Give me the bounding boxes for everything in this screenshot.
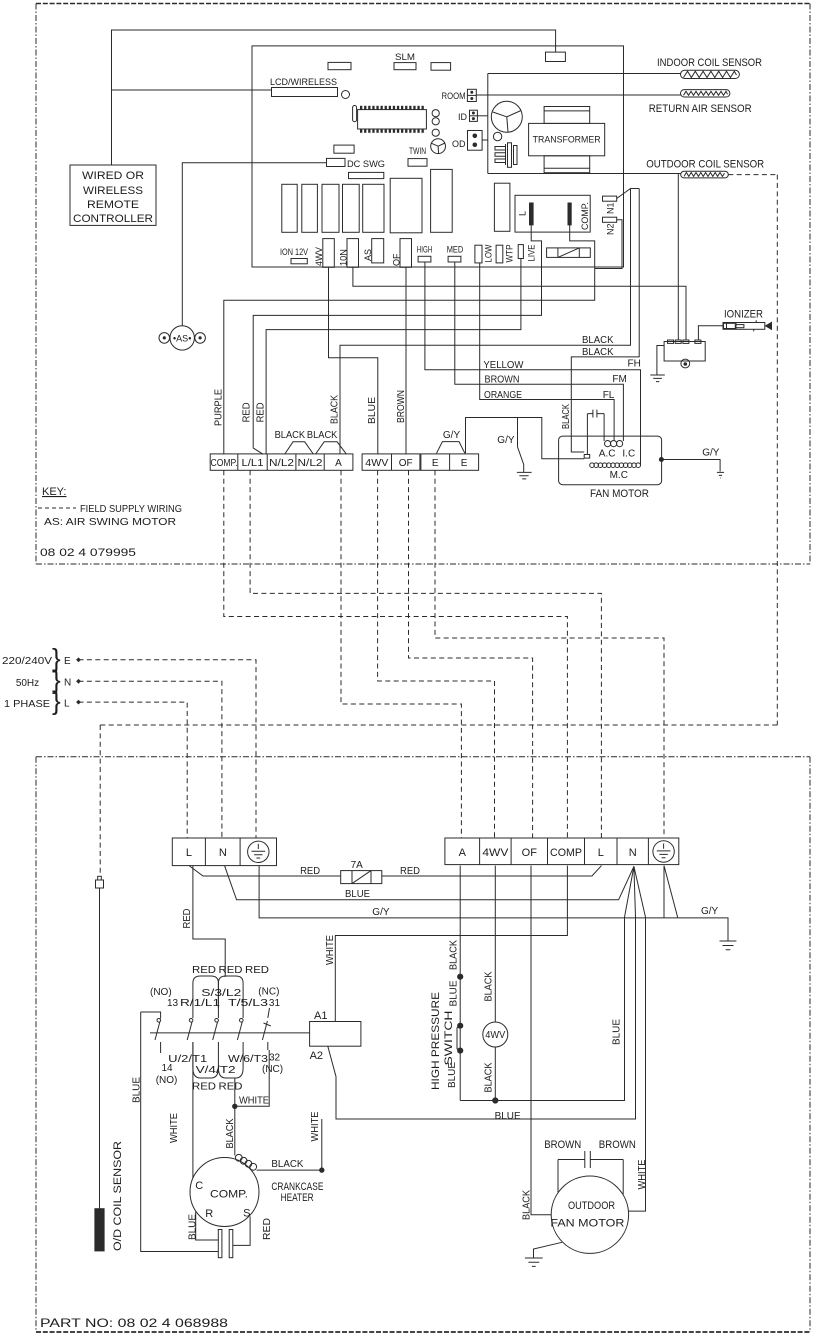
svg-text:L: L (598, 847, 604, 859)
relay K2 (302, 184, 318, 232)
svg-text:G/Y: G/Y (443, 430, 461, 441)
svg-text:YELLOW: YELLOW (483, 360, 524, 371)
svg-text:G/Y: G/Y (497, 435, 515, 446)
LIVE connector (518, 245, 523, 259)
indoor terminal strip COMP..A (210, 454, 353, 470)
outdoor coil sensor symbol (681, 171, 729, 178)
power supply N dashed line (79, 681, 222, 838)
svg-text:RED: RED (255, 402, 266, 422)
power supply L dashed line (79, 702, 188, 838)
svg-text:COMP.: COMP. (210, 1189, 248, 1201)
wire COMP terminal to contactor A1 (WHITE) (335, 866, 567, 1022)
wire right earth to bus (664, 866, 678, 918)
svg-text:REMOTE: REMOTE (87, 199, 139, 211)
wire N2 to COMP node (595, 220, 622, 269)
PCB inner sub-board top edge / indoor coil sensor lead (488, 73, 681, 75)
svg-text:ION 12V: ION 12V (280, 247, 308, 257)
field supply dashed 4WV to outdoor 4WV (378, 470, 495, 838)
wire relay COMP bar to COMP terminal (PURPLE) (224, 225, 595, 454)
wire remote controller to PCB top pad (112, 30, 556, 165)
return air sensor symbol (681, 90, 730, 97)
svg-text:RED: RED (182, 909, 193, 929)
svg-text:4WV: 4WV (365, 458, 388, 469)
relay K4 (343, 184, 360, 232)
wire 4WV coil to blue node (BLACK) (494, 1047, 496, 1101)
svg-text:WIRED OR: WIRED OR (82, 170, 144, 182)
wire 4WV connector to 4WV terminal (BLUE) (329, 267, 378, 454)
svg-text:A1: A1 (314, 1010, 327, 1022)
heatsink component (495, 144, 506, 165)
svg-text:E: E (432, 458, 439, 469)
svg-text:A.C: A.C (599, 449, 616, 460)
svg-text:WHITE: WHITE (637, 1159, 648, 1189)
wire N to outdoor fan motor (WHITE) (629, 866, 646, 1211)
svg-text:WHITE: WHITE (169, 1113, 180, 1143)
text labels: top section (73, 52, 764, 344)
svg-text:OF: OF (399, 458, 413, 469)
field supply dashed A to outdoor A (341, 470, 461, 838)
wire OD to sub-board (482, 139, 488, 141)
relay K1 (282, 184, 297, 232)
svg-text:COMP.: COMP. (211, 458, 238, 469)
wire crankcase heater to A2 riser (BLACK) (257, 1119, 322, 1170)
outdoor left earth symbol (248, 841, 269, 862)
svg-text:IONIZER: IONIZER (724, 309, 763, 321)
svg-text:N/L2: N/L2 (298, 458, 324, 469)
wire OF connector to OF terminal (BROWN) (405, 267, 407, 454)
svg-text:14: 14 (162, 1063, 174, 1074)
svg-text:FAN MOTOR: FAN MOTOR (590, 488, 649, 500)
svg-text:HIGH: HIGH (417, 245, 433, 255)
svg-text:BLACK: BLACK (483, 971, 494, 1001)
svg-text:ROOM: ROOM (442, 91, 466, 101)
svg-text:(NO): (NO) (150, 987, 172, 998)
svg-text:50Hz: 50Hz (16, 678, 39, 689)
svg-text:E: E (461, 458, 468, 469)
wire A terminal to high pressure switch (BLACK/BLUE) (459, 866, 461, 1101)
svg-text:BLUE: BLUE (612, 1019, 623, 1045)
svg-text:V/4/T2: V/4/T2 (196, 1065, 237, 1076)
svg-text:OF: OF (391, 253, 401, 266)
svg-text:L: L (518, 211, 528, 216)
small circle below buzzer (493, 132, 501, 140)
indoor terminal strip 4WV OF (362, 454, 420, 470)
wire L to contactor feed (RED) (193, 866, 225, 977)
crankcase heater coil (235, 1154, 242, 1161)
LCD/WIRELESS connector (272, 88, 338, 97)
svg-text:BROWN: BROWN (599, 1139, 636, 1151)
svg-text:FIELD SUPPLY WIRING: FIELD SUPPLY WIRING (80, 504, 182, 515)
contactor coil box A1 A2 (310, 1022, 361, 1047)
svg-text:4WV: 4WV (482, 847, 509, 859)
svg-text:CONTROLLER: CONTROLLER (73, 213, 153, 225)
ID connector (470, 110, 478, 121)
svg-text:WHITE: WHITE (310, 1111, 321, 1141)
pad above DC SWG (334, 145, 354, 153)
trimmer sphere below LEDs (431, 139, 446, 154)
svg-text:RETURN AIR SENSOR: RETURN AIR SENSOR (649, 103, 752, 115)
svg-text:C: C (195, 1180, 203, 1192)
wire aux 14 to compressor run cap (BLUE) (141, 1012, 219, 1252)
svg-text:L: L (186, 847, 192, 859)
svg-text:N: N (219, 847, 227, 859)
wired or wireless remote controller box (70, 165, 156, 225)
svg-text:BLUE: BLUE (345, 889, 370, 900)
LED circles beside IC (432, 110, 439, 117)
svg-text:BLACK: BLACK (582, 335, 614, 346)
svg-text:HIGH PRESSURE: HIGH PRESSURE (430, 992, 442, 1090)
svg-text:OD: OD (452, 139, 466, 149)
svg-text:FM: FM (612, 374, 626, 385)
svg-text:COMP.: COMP. (580, 202, 590, 230)
svg-text:SLM: SLM (395, 52, 415, 62)
svg-text:O/D COIL SENSOR: O/D COIL SENSOR (112, 1141, 124, 1251)
wire E2 to fan motor frame (G/Y) (466, 418, 585, 459)
svg-text:08 02 4 079995: 08 02 4 079995 (40, 547, 136, 559)
relay COMP contact bars (529, 203, 572, 226)
svg-text:}: } (52, 686, 61, 716)
svg-text:BLACK: BLACK (329, 395, 340, 424)
power supply connection diamonds (76, 657, 81, 662)
fan motor run capacitor (587, 410, 604, 418)
svg-text:WHITE: WHITE (239, 1096, 269, 1107)
PCB top pad connector (546, 52, 566, 61)
wire relay L bar to L/L1 terminal (RED) (253, 225, 541, 454)
outdoor fan capacitor (BROWN) (558, 1151, 623, 1194)
high pressure switch contact (457, 1026, 460, 1051)
wire compressor R to cap (196, 1212, 219, 1241)
wire 4WV terminal to 4WV coil (BLACK) (494, 866, 496, 1022)
HIGH pad (418, 256, 431, 262)
svg-text:BLACK: BLACK (483, 1062, 494, 1092)
svg-text:BLACK: BLACK (271, 1159, 303, 1170)
wire 10N connector to ionizer board (353, 267, 686, 340)
A.C terminal pad (584, 455, 590, 459)
svg-text:TWIN: TWIN (409, 146, 426, 156)
wire LIVE to L/L1 terminal (RED) (266, 259, 521, 455)
jumper bridge N/L2 to N/L2 (285, 442, 313, 454)
wire fuse to outdoor right L (RED) (382, 866, 602, 876)
svg-text:N2: N2 (606, 223, 616, 235)
contactor bottom jumper loops (193, 1068, 219, 1078)
svg-text:FAN MOTOR: FAN MOTOR (550, 1218, 624, 1230)
wire HP switch bottom bus to N (BLUE) (460, 866, 634, 1100)
svg-text:HEATER: HEATER (281, 1192, 314, 1204)
wire outdoor N to right N (BLUE) (225, 866, 634, 900)
WTP connector (496, 245, 503, 263)
svg-text:RED: RED (242, 402, 253, 422)
wire N1 to A terminal (BLACK) (340, 189, 631, 455)
contactor pole S/3/L2 (217, 1008, 219, 1068)
indoor fan motor box (559, 436, 662, 485)
svg-text:(NC): (NC) (262, 1064, 283, 1075)
svg-text:RED: RED (400, 866, 420, 877)
compressor run capacitor plates (218, 1230, 222, 1258)
svg-text:RED: RED (219, 965, 243, 976)
svg-text:N: N (629, 847, 637, 859)
svg-text:RED: RED (300, 866, 320, 877)
pad SLM (394, 63, 416, 70)
wire 32 NC to junction (WHITE) (235, 1050, 269, 1106)
connector 4WV (323, 239, 335, 268)
svg-text:1 PHASE: 1 PHASE (4, 699, 50, 710)
svg-text:AS: AS (363, 249, 373, 261)
connector OF (400, 239, 412, 268)
svg-text:RED: RED (192, 1082, 216, 1093)
wire capacitor left to A.C pad (586, 414, 588, 455)
svg-text:A2: A2 (310, 1050, 323, 1062)
wire N to A2 bottom bus (328, 866, 636, 1119)
wire compressor S to cap (RED) (233, 1217, 250, 1246)
field supply dashed L/L1 to outdoor L (250, 470, 601, 838)
svg-text:L: L (64, 699, 70, 710)
relay K5 (363, 184, 384, 232)
IC crystal (353, 106, 357, 122)
svg-text:M.C: M.C (610, 470, 628, 481)
svg-text:N: N (64, 678, 71, 689)
indoor unit dashed border (36, 3, 810, 5)
buzzer circle (491, 101, 522, 132)
fan motor frame wire with junction to right ground (662, 460, 725, 479)
wire outdoor L to fuse (RED) (189, 866, 341, 876)
svg-text:SWITCH: SWITCH (443, 1010, 455, 1065)
svg-text:ID: ID (458, 112, 468, 122)
svg-text:PART NO: 08 02 4 068988: PART NO: 08 02 4 068988 (40, 1316, 228, 1330)
svg-text:BLUE: BLUE (495, 1111, 521, 1122)
svg-text:BLUE: BLUE (367, 397, 378, 424)
field supply dashed E to outdoor earth (435, 470, 664, 838)
svg-text:(NC): (NC) (258, 987, 279, 998)
svg-text:BLACK: BLACK (522, 1190, 533, 1220)
field supply dashed COMP to outdoor COMP (224, 470, 568, 838)
wire ionizer device to pad4 (698, 326, 723, 340)
svg-text:WHITE: WHITE (325, 935, 336, 965)
4WV solenoid coil (483, 1022, 508, 1047)
IC pins (360, 106, 424, 133)
svg-text:(NO): (NO) (156, 1075, 178, 1086)
indoor PCB board outline (252, 46, 624, 267)
PCB inner sub-board left edge (487, 74, 489, 174)
fuse F1 on PCB (547, 248, 591, 258)
contactor top jumper loops (193, 976, 219, 1008)
svg-text:A: A (459, 847, 467, 859)
wire MED to fan motor FM (BROWN) (455, 262, 624, 441)
indoor coil sensor symbol (681, 70, 740, 78)
svg-text:RED: RED (262, 1218, 273, 1240)
svg-text:G/Y: G/Y (701, 906, 719, 917)
svg-text:7A: 7A (351, 860, 364, 871)
OD connector (468, 131, 483, 151)
svg-text:BLUE: BLUE (132, 1077, 143, 1103)
svg-text:R: R (205, 1208, 213, 1220)
svg-text:LOW: LOW (484, 244, 494, 262)
pad P3 top row (431, 63, 451, 71)
svg-text:LIVE: LIVE (527, 245, 537, 262)
IC U1 body (358, 110, 427, 129)
jumper bridge N/L2 to A (316, 442, 347, 454)
wire N1 to fan motor A.C (BLACK) (571, 189, 639, 453)
outdoor fan motor ground (525, 1242, 562, 1266)
DC SWG connector (327, 158, 346, 166)
relay COMP box (515, 195, 590, 232)
O/D coil sensor body (95, 1209, 104, 1251)
pad P1 top row (328, 62, 351, 69)
relay K6 (390, 178, 422, 233)
ionizer board ground (650, 346, 665, 382)
svg-text:TRANSFORMER: TRANSFORMER (533, 135, 601, 145)
svg-text:E: E (64, 656, 71, 667)
contactor pole R/1/L1 (192, 1008, 194, 1068)
svg-text:T/5/L3: T/5/L3 (228, 998, 269, 1009)
svg-text:BLACK: BLACK (561, 404, 572, 429)
svg-text:OUTDOOR COIL SENSOR: OUTDOOR COIL SENSOR (646, 159, 764, 171)
svg-text:ORANGE: ORANGE (484, 390, 522, 401)
svg-text:INDOOR COIL SENSOR: INDOOR COIL SENSOR (657, 57, 762, 69)
wire N1 junction (617, 189, 640, 199)
contactor pole T/5/L3 (242, 1008, 244, 1068)
compressor motor (190, 1158, 259, 1227)
svg-text:4WV: 4WV (314, 247, 324, 266)
connector AS (372, 239, 384, 263)
N1 pad (603, 196, 617, 201)
power supply E dashed line (79, 660, 257, 838)
svg-text:S: S (243, 1208, 250, 1220)
svg-text:R/1/L1: R/1/L1 (180, 998, 221, 1009)
svg-text:RED: RED (192, 965, 216, 976)
fan motor M.C winding (590, 463, 595, 468)
svg-text:RED: RED (219, 1082, 243, 1093)
wire HIGH to fan motor FH (YELLOW) (425, 262, 641, 465)
wire remote controller to LCD/WIRELESS connector (112, 89, 272, 91)
wire capacitor right to A.C winding (603, 414, 605, 441)
field wiring dashed outdoor sensor line (100, 175, 777, 877)
svg-text:BLACK: BLACK (275, 430, 306, 441)
field supply dashed OF to outdoor OF (409, 470, 533, 838)
svg-text:L/L1: L/L1 (242, 458, 264, 469)
svg-text:OUTDOOR: OUTDOOR (568, 1200, 615, 1212)
svg-text:G/Y: G/Y (372, 907, 390, 918)
transformer T1 (544, 107, 590, 124)
svg-text:FH: FH (628, 358, 641, 369)
svg-text:BROWN: BROWN (544, 1139, 581, 1151)
contactor aux contact 13-14 (141, 1012, 161, 1053)
svg-text:RED: RED (245, 965, 269, 976)
svg-text:13: 13 (167, 998, 179, 1009)
wire DC SWG to AS motor (182, 163, 326, 326)
wire outdoor earth bus (G/Y) (259, 866, 736, 950)
outdoor right earth symbol (653, 841, 674, 862)
svg-text:BLACK: BLACK (582, 347, 614, 358)
svg-text:N1: N1 (606, 202, 616, 214)
LOW connector (475, 245, 482, 263)
AS air swing motor (170, 326, 194, 350)
ionizer board (664, 342, 705, 362)
wire LOW to fan motor FL (ORANGE) (480, 263, 614, 441)
svg-text:BLUE: BLUE (188, 1214, 199, 1240)
wire OF terminal to outdoor fan motor (BLACK) (531, 866, 551, 1215)
wire ionizer board pad2 riser (677, 174, 679, 340)
svg-text:I.C: I.C (622, 449, 635, 460)
svg-text:•AS•: •AS• (173, 334, 191, 344)
MED pad (448, 256, 461, 262)
capacitor C block (494, 183, 510, 231)
svg-text:BROWN: BROWN (396, 390, 407, 423)
O/D coil sensor lead (99, 888, 101, 1209)
relay K3 (322, 184, 339, 232)
svg-text:COMP: COMP (550, 847, 582, 859)
outdoor unit dashed border (36, 756, 810, 758)
TWIN pad (408, 159, 427, 167)
fuse 7A (341, 871, 382, 884)
ionizer device (723, 323, 765, 330)
svg-text:32: 32 (269, 1053, 281, 1064)
wire contactor U/2/T1 to compressor C (WHITE) (192, 1042, 194, 1178)
wire contactor V/4/T2 to crankcase heater (BLACK) (234, 1078, 236, 1155)
svg-text:A: A (335, 458, 342, 469)
jumper bridge E to E (G/Y) (437, 442, 465, 454)
svg-text:KEY:: KEY: (42, 486, 66, 498)
ground branch near E terminals (517, 418, 532, 479)
connector 10N (347, 239, 359, 268)
O/D sensor plug (96, 880, 104, 888)
wire ID to indoor coil sensor riser (477, 115, 487, 117)
wire ROOM to return air sensor (476, 94, 680, 96)
svg-text:BROWN: BROWN (485, 375, 520, 386)
svg-text:220/240V: 220/240V (2, 656, 52, 667)
svg-text:PURPLE: PURPLE (214, 389, 225, 426)
svg-text:10N: 10N (338, 249, 348, 266)
svg-text:WIRELESS: WIRELESS (83, 185, 143, 197)
ROOM connector (467, 89, 476, 101)
ear dots on AS motor (163, 336, 202, 339)
PCB inner sub-board bottom edge / outdoor coil sensor lead (488, 173, 681, 175)
outdoor fan motor (551, 1176, 628, 1253)
svg-text:WTP: WTP (505, 245, 515, 263)
svg-text:G/Y: G/Y (702, 448, 720, 459)
svg-text:LCD/WIRELESS: LCD/WIRELESS (270, 77, 337, 87)
key dashed sample (38, 507, 76, 509)
svg-text:N/L2: N/L2 (269, 458, 295, 469)
svg-text:4WV: 4WV (485, 1030, 505, 1041)
pad below DC SWG (349, 172, 384, 178)
svg-text:MED: MED (447, 245, 464, 255)
svg-text:OF: OF (522, 847, 538, 859)
N2 pad (603, 217, 617, 222)
svg-text:AS: AIR SWING MOTOR: AS: AIR SWING MOTOR (44, 517, 176, 528)
ION 12V pad (291, 259, 307, 264)
svg-text:BLUE: BLUE (448, 980, 459, 1006)
svg-text:31: 31 (269, 998, 281, 1009)
contactor pole 31-32 NC (262, 1008, 270, 1050)
outdoor terminal strip L N earth (172, 838, 276, 866)
indoor terminal strip E E (421, 454, 479, 470)
svg-text:FL: FL (603, 390, 615, 401)
svg-text:BLACK: BLACK (307, 430, 338, 441)
svg-text:BLACK: BLACK (225, 1118, 236, 1148)
svg-text:BLACK: BLACK (448, 940, 459, 970)
svg-text:DC SWG: DC SWG (347, 159, 385, 169)
outdoor terminal strip A..earth (445, 838, 679, 865)
contactor linkage bar (150, 1032, 310, 1034)
relay K7 (431, 169, 453, 232)
fan motor A.C winding (605, 441, 611, 447)
svg-text:U/2/T1: U/2/T1 (168, 1054, 208, 1065)
